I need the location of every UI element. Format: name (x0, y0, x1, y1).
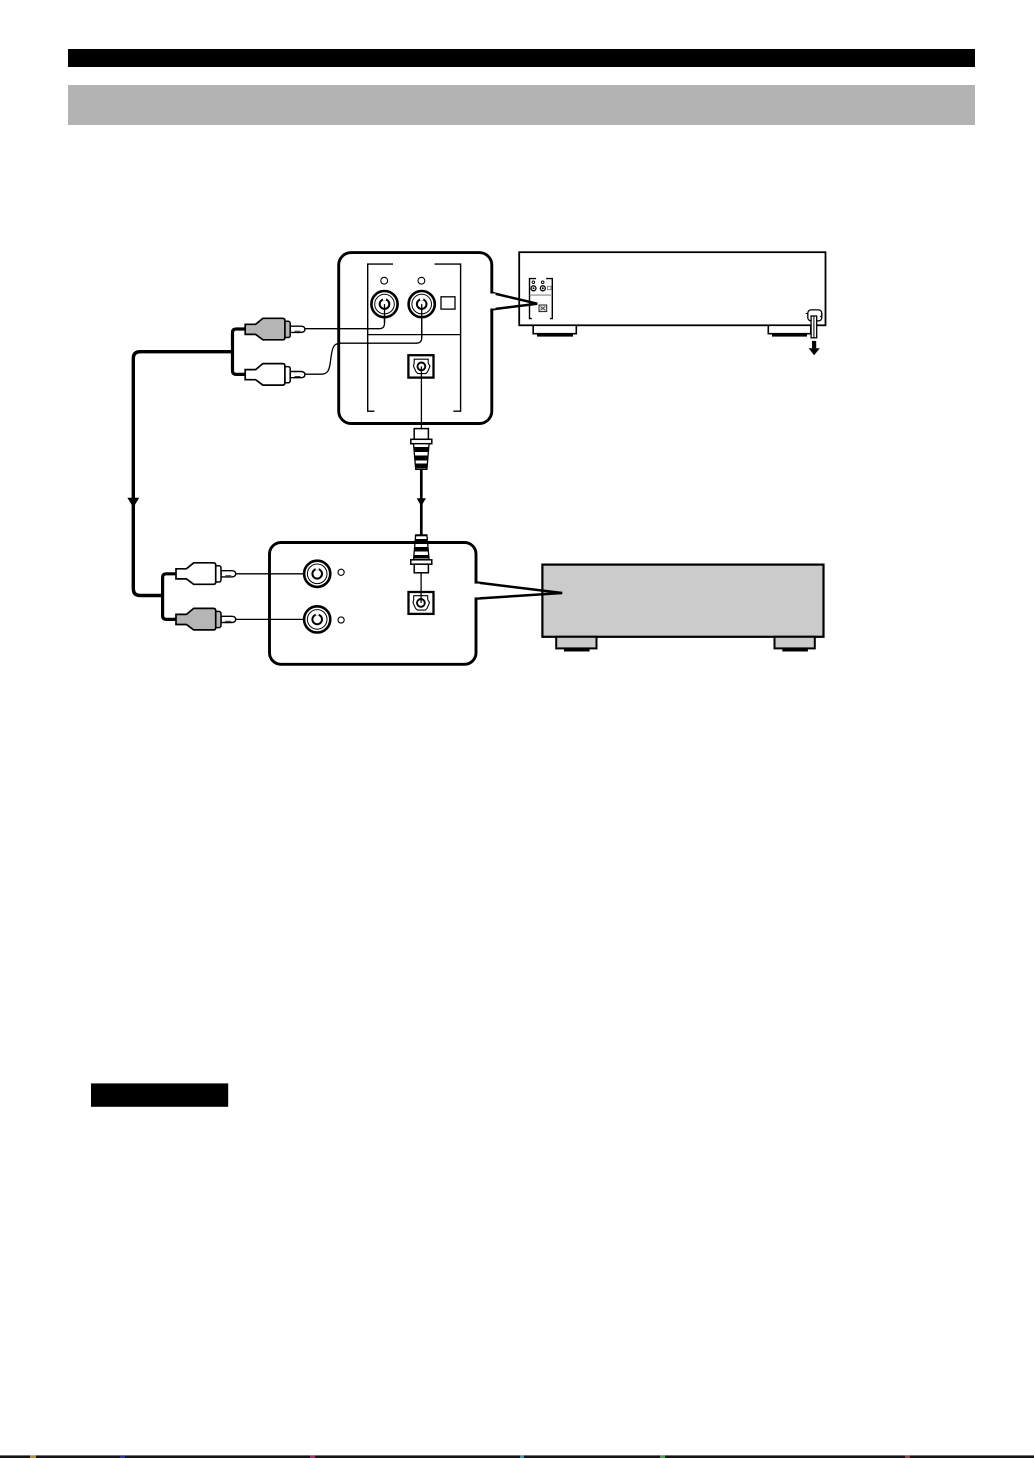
RCA plug gray (to B1 L jack) (245, 318, 305, 340)
box B2 screw hole top (338, 569, 344, 575)
box B1 optical jack (408, 355, 433, 377)
optical cable between plugs (420, 469, 423, 535)
device U1 power cord connector (806, 310, 822, 321)
audio cable trunk (thick) (133, 329, 246, 619)
box B2 edge gap (473, 584, 480, 598)
device U1 rear jack panel bracket (530, 279, 553, 319)
RCA plug gray (to B2 bottom jack) (176, 608, 236, 630)
bottom scan line (0, 1455, 1034, 1458)
device U1 right foot (768, 325, 811, 336)
cable branch to left and down (133, 352, 232, 596)
power cord arrow (809, 341, 820, 355)
callout box B1 (339, 253, 492, 424)
RCA plug white (to B2 top jack) (176, 563, 236, 585)
wire from jack R to white plug (306, 304, 422, 374)
RCA plug white (to B1 R jack) (245, 364, 305, 386)
box B2 RCA jack top (304, 561, 330, 587)
device U1 panel screw holes (532, 281, 544, 284)
optical plug P2 (into B2) (410, 535, 432, 573)
header gray bar (68, 85, 975, 125)
note label black box (91, 1083, 228, 1106)
device U1 panel separator line (530, 294, 552, 296)
box B1 RCA jack R (409, 291, 435, 337)
box B2 RCA jack bottom (304, 606, 330, 632)
box B1 edge gap (489, 294, 496, 309)
optical cable arrow (417, 498, 426, 506)
cable between plug pair 1 (233, 329, 247, 374)
box B1 panel bracket (368, 264, 461, 411)
device U2 (amplifier rear view, gray) (542, 565, 823, 637)
optical plug P1 (into B1) (410, 429, 432, 470)
box B1 screw hole R (418, 277, 425, 284)
box B2 top edge over plug (413, 541, 431, 544)
box B1 small square port (441, 297, 455, 309)
device U1 power cord (811, 316, 817, 338)
box B1 separator line (368, 334, 461, 336)
device U1 (CD/MD deck rear view, white) (519, 252, 825, 325)
callout box B2 (270, 543, 477, 665)
box B1 screw hole L (381, 277, 388, 284)
wire into B2 jack top (234, 573, 317, 575)
device U1 panel RCA jack L (531, 286, 536, 291)
box B2 optical jack (409, 592, 434, 614)
box B1 RCA jack L (371, 291, 397, 323)
device U2 left foot (556, 637, 596, 652)
callout pointer 1 (492, 293, 538, 310)
device U1 left foot (533, 325, 576, 336)
optical cable light pipe bottom (420, 573, 422, 603)
device U1 panel small square (548, 286, 551, 289)
wire into B2 jack bottom (234, 618, 317, 620)
device U1 panel RCA jack R (540, 286, 545, 291)
optical cable light pipe top (420, 366, 422, 429)
device U2 right foot (775, 637, 815, 652)
cable arrow down (127, 498, 139, 508)
cable between plug pair 2 (163, 574, 178, 620)
callout pointer 2 (476, 582, 562, 598)
box B2 screw hole bottom (338, 617, 344, 623)
header black bar (68, 49, 975, 67)
device U1 panel optical jack (539, 305, 547, 312)
wire from jack L to gray plug (306, 304, 385, 329)
